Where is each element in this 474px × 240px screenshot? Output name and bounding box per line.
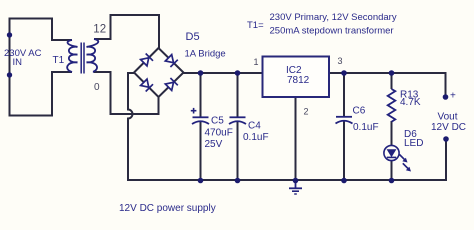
svg-text:0: 0 (94, 82, 100, 93)
svg-text:D5: D5 (186, 31, 200, 43)
svg-text:0.1uF: 0.1uF (243, 132, 269, 143)
svg-text:12: 12 (93, 23, 106, 35)
svg-text:LED: LED (404, 138, 423, 149)
svg-text:C4: C4 (248, 121, 261, 132)
svg-text:0.1uF: 0.1uF (353, 122, 379, 133)
svg-text:470uF: 470uF (205, 128, 233, 139)
svg-text:250mA stepdown transformer: 250mA stepdown transformer (270, 26, 394, 37)
svg-text:1A Bridge: 1A Bridge (185, 49, 226, 60)
svg-text:2: 2 (304, 107, 309, 117)
svg-text:7812: 7812 (287, 75, 310, 86)
svg-text:12V DC power supply: 12V DC power supply (119, 203, 216, 214)
svg-text:12V DC: 12V DC (431, 122, 466, 133)
svg-text:+: + (450, 91, 456, 102)
svg-text:C5: C5 (211, 116, 224, 127)
svg-text:T1=: T1= (247, 20, 264, 31)
svg-text:230V Primary, 12V Secondary: 230V Primary, 12V Secondary (270, 12, 397, 23)
svg-text:4.7K: 4.7K (400, 97, 421, 108)
svg-text:230V AC: 230V AC (4, 48, 42, 59)
svg-text:T1: T1 (53, 55, 65, 66)
svg-text:3: 3 (338, 56, 343, 66)
svg-text:C6: C6 (353, 106, 366, 117)
svg-text:1: 1 (254, 57, 259, 67)
svg-text:Vout: Vout (438, 112, 458, 123)
svg-text:IN: IN (13, 57, 23, 68)
svg-text:25V: 25V (205, 139, 223, 150)
